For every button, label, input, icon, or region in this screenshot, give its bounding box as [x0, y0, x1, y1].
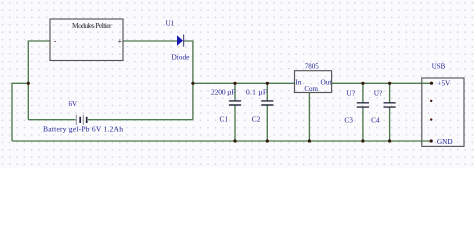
wire from diode cathode right and down to battery row — [184, 41, 193, 120]
capacitor C2 plates — [261, 101, 273, 105]
junction C3 bottom — [361, 139, 364, 142]
junction C3 top — [361, 82, 364, 85]
wire C1 leads — [234, 83, 236, 141]
diode cathode bar — [183, 35, 185, 47]
svg-text:Diode: Diode — [172, 53, 190, 62]
svg-text:C4: C4 — [371, 116, 380, 125]
svg-text:U1: U1 — [166, 19, 175, 28]
connector box USB — [422, 78, 464, 146]
junction C4 top — [388, 82, 391, 85]
capacitor C4 plates — [384, 103, 396, 107]
svg-text:C1: C1 — [220, 115, 229, 124]
wire battery left lead — [28, 119, 75, 121]
svg-text:-: - — [54, 36, 57, 45]
junction Com bottom — [308, 139, 311, 142]
svg-text:Battery gel-Pb 6V 1.2Ah: Battery gel-Pb 6V 1.2Ah — [43, 124, 123, 133]
wire battery right lead — [88, 119, 193, 121]
pin dot nc2 — [430, 118, 432, 120]
wire top rail from 7805 Out to USB +5V pin — [332, 82, 432, 84]
junction C4 bottom — [388, 139, 391, 142]
wire ground stub from node A to bottom-left corner — [12, 83, 28, 141]
svg-text:6V: 6V — [69, 100, 78, 108]
svg-text:C2: C2 — [252, 115, 261, 124]
junction C1 top — [233, 82, 236, 85]
svg-text:+: + — [118, 37, 123, 46]
wire C2 leads — [266, 83, 268, 141]
pin dot +5V — [430, 82, 433, 85]
svg-text:7805: 7805 — [305, 63, 320, 71]
svg-text:In: In — [295, 78, 301, 87]
diode U1 triangle — [177, 35, 183, 46]
pin dot nc1 — [430, 100, 432, 102]
junction C1 bottom — [233, 139, 236, 142]
svg-text:U?: U? — [347, 88, 356, 97]
svg-text:Out: Out — [321, 78, 332, 87]
svg-text:Modules Peltier: Modules Peltier — [72, 21, 112, 30]
wire top rail from diode node to 7805 In — [193, 82, 295, 84]
junction diode corner node — [191, 82, 194, 85]
wire C3 leads — [362, 83, 364, 141]
svg-text:C3: C3 — [344, 116, 353, 125]
wire C4 leads — [389, 83, 391, 141]
wire from Peltier minus terminal left and down to battery row — [28, 41, 50, 120]
pin dot GND — [430, 139, 433, 142]
junction node A (left) — [27, 82, 30, 85]
svg-text:2200 µF: 2200 µF — [211, 88, 236, 97]
wire from Peltier plus terminal to diode anode — [123, 40, 177, 42]
junction C2 bottom — [266, 139, 269, 142]
module box: Modules Peltier — [50, 19, 123, 61]
wire bottom ground rail — [12, 140, 431, 142]
wire 7805 Com to ground rail — [308, 93, 310, 142]
capacitor C1 plates — [229, 101, 241, 105]
svg-text:+5V: +5V — [437, 79, 451, 88]
svg-text:USB: USB — [432, 62, 446, 70]
capacitor C3 plates — [357, 103, 369, 107]
regulator box 7805 — [295, 71, 332, 93]
junction C2 top — [266, 82, 269, 85]
battery plates — [76, 115, 86, 125]
svg-text:0.1 µF: 0.1 µF — [246, 88, 267, 97]
svg-text:Com: Com — [304, 85, 318, 93]
svg-text:U?: U? — [374, 88, 383, 97]
svg-text:GND: GND — [437, 137, 453, 146]
